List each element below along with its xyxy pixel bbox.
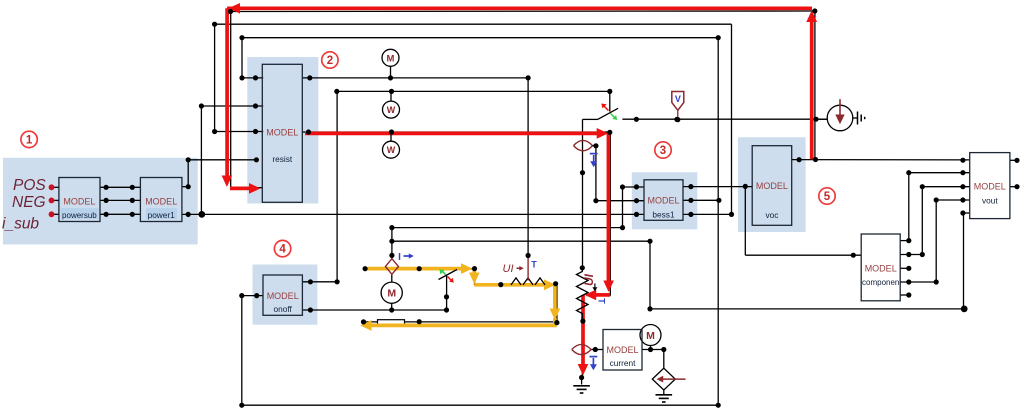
svg-text:POS: POS: [13, 177, 46, 194]
svg-text:MODEL: MODEL: [266, 127, 298, 137]
svg-text:5: 5: [824, 191, 831, 203]
svg-text:vout: vout: [982, 196, 998, 206]
svg-text:4: 4: [279, 244, 286, 256]
wire bess1 right pin1 to voc: [683, 186, 752, 188]
callout number 1: [21, 131, 37, 147]
wire resist pin1 row right to node T: [302, 77, 528, 79]
wire current sense row y=268.7: [365, 268, 474, 270]
wire vertical x=814.9 (under red highlight): [814, 11, 816, 160]
wire row y=308.9: [650, 308, 964, 310]
callout number 5: [819, 188, 835, 204]
wire power1 row y=159.8: [188, 159, 256, 161]
controlled source D2 (diamond): [652, 368, 675, 390]
svg-text:M: M: [646, 330, 655, 342]
meter W2 stub: [390, 132, 392, 141]
wire diamond source to ground: [663, 390, 665, 394]
label UI vertical arrow: [594, 284, 596, 289]
switch S2 red arrow: [448, 277, 451, 280]
yellow vertical x=554.9: [553, 285, 557, 309]
yellow arrow right: [461, 263, 473, 274]
wire bess1 right pin3 row: [683, 213, 732, 215]
meter M5: [640, 325, 661, 346]
voltage source VS1 (circle): [827, 105, 853, 131]
wire bess1 pin2 row left: [596, 200, 644, 202]
svg-text:componen: componen: [862, 278, 899, 287]
resistor R2 (horizontal): [511, 278, 545, 285]
svg-text:NEG: NEG: [12, 194, 46, 211]
yellow highlight row y=268.6: [368, 267, 463, 271]
svg-text:T: T: [597, 298, 607, 304]
wire row y=227.6: [392, 227, 623, 229]
yellow corner to return row: [371, 318, 555, 325]
switch S2 green arrow: [442, 271, 446, 275]
node bus junction (large): [198, 211, 205, 218]
shaded region 2 (resist group): [247, 57, 318, 204]
block U9 MODEL current: [603, 330, 642, 371]
wire riser x=391.9 to ammeter: [391, 228, 393, 259]
wire vertical x=731.5: [731, 24, 733, 214]
current sensor eye E1: [574, 140, 593, 150]
shaded region 4 (onoff group): [253, 265, 318, 325]
meter M1 stub: [390, 66, 392, 78]
red highlight left vertical: [225, 8, 229, 176]
wire vertical x=595.9 from sensor: [595, 146, 597, 201]
wire vertical x=188.2: [187, 160, 189, 187]
svg-text:UI: UI: [503, 263, 514, 275]
callout number 3: [655, 142, 671, 158]
wire onoff left pin: [242, 295, 263, 297]
thermal probe wire T: [527, 256, 529, 281]
svg-text:M: M: [387, 53, 395, 64]
svg-text:voc: voc: [765, 210, 778, 220]
svg-text:V: V: [675, 94, 681, 104]
switch S1: [609, 91, 611, 111]
wire top bus y=11.5: [230, 10, 815, 13]
wire bottom rail y=405.2: [242, 404, 718, 406]
wire row y=186.7 componen to vout: [922, 186, 969, 188]
block U5 MODEL bess1: [644, 180, 683, 221]
wire resist pin1 row left: [242, 77, 263, 79]
shaded region 5 (voc group): [738, 137, 806, 232]
yellow resistor row: [474, 283, 544, 287]
wire vertical x=528.1 to thermal probe: [527, 78, 529, 256]
wire resist pin3 row: [215, 131, 264, 133]
wire row y=172.7 componen to vout: [909, 172, 970, 174]
svg-text:bess1: bess1: [652, 210, 675, 220]
svg-text:1: 1: [26, 134, 33, 146]
wire componen pin1 stub: [900, 240, 909, 242]
svg-text:MODEL: MODEL: [974, 182, 1006, 192]
wire vertical x=936.2: [935, 200, 937, 282]
wire resist output row y=132 (under red highlight): [302, 131, 610, 133]
wire row y=214.4 power1 to bess1: [182, 213, 644, 215]
yellow vertical x=474.3: [472, 269, 476, 273]
red highlight battery vertical: [607, 133, 611, 281]
wire vertical to diamond source: [663, 350, 665, 369]
red highlight top bus: [227, 6, 812, 10]
wire voc right pin1 row to vout: [792, 159, 970, 161]
wire row y=255.2 to componen: [745, 254, 861, 256]
svg-text:MODEL: MODEL: [865, 263, 897, 273]
svg-text:MODEL: MODEL: [756, 181, 788, 191]
svg-text:T: T: [531, 260, 537, 270]
wire meter row y=91.4: [337, 90, 610, 92]
svg-text:2: 2: [327, 55, 333, 67]
red highlight arrow right into resist pin5: [230, 187, 250, 191]
red highlight arrow left: [228, 3, 240, 14]
yellow arrow down: [469, 273, 480, 285]
wire bus y=37.7: [242, 37, 718, 39]
svg-text:M: M: [387, 288, 396, 300]
wire row y=241.2: [392, 240, 650, 242]
svg-text:MODEL: MODEL: [145, 197, 177, 207]
switch S1 red arrow: [603, 106, 608, 111]
wire vertical x=610.3 (under red highlight): [609, 132, 611, 296]
switch S1 green arrow: [611, 114, 615, 118]
callout number 2: [322, 52, 338, 68]
wire switch2 vertical x=446.5: [446, 276, 448, 311]
svg-text:onoff: onoff: [274, 304, 293, 314]
block U2 MODEL power1: [140, 178, 182, 222]
wire meter M4 stub: [391, 303, 393, 310]
wire componen pin2 row: [900, 254, 922, 256]
wire bus y=24.2: [215, 23, 732, 25]
reference symbol at VS1: [853, 117, 858, 119]
wire onoff pin1 row: [302, 281, 337, 283]
wire battery branch below resistor: [581, 321, 583, 377]
svg-text:MODEL: MODEL: [267, 291, 299, 301]
wire vertical x=963.5 vout to row: [963, 213, 965, 309]
svg-text:power1: power1: [148, 210, 176, 220]
source D2 arrow: [660, 378, 686, 380]
wire vertical x=745.3 voc to componen: [744, 186, 746, 255]
red highlight right vertical: [810, 21, 814, 160]
wire vout right pin1 stub: [1010, 159, 1017, 161]
yellow arrow right after resistor: [544, 279, 556, 290]
wire ammeter to meter M4: [391, 274, 393, 282]
red highlight arrow up: [806, 10, 817, 22]
wire battery to ground: [581, 378, 583, 385]
wire bess1 right pin2 row: [683, 199, 719, 201]
source VS1 arrow: [839, 99, 841, 119]
wire current block left stub: [591, 349, 603, 351]
shaded region 1 (power group): [3, 158, 198, 245]
wire switch1 output row y=119.4: [622, 118, 827, 120]
ground G2: [656, 394, 673, 396]
meter M1: [382, 49, 399, 66]
wire meter M5 stub: [650, 346, 652, 350]
wire resist pin2 row: [201, 105, 263, 107]
fuse box on return row: [378, 320, 405, 325]
wire vertical x=622.5 to bess1 pin1: [622, 187, 624, 228]
ammeter sensor A1 (diamond): [385, 259, 398, 275]
wire V-source input: [816, 118, 827, 120]
sensor E1 output: [593, 145, 596, 147]
block U7 MODEL componen: [861, 234, 900, 301]
block U1 MODEL powersub: [59, 178, 100, 222]
svg-text:MODEL: MODEL: [606, 345, 638, 355]
wire vout right pin2 stub: [1010, 186, 1017, 188]
wire componen pin5 stub: [900, 294, 909, 296]
svg-text:MODEL: MODEL: [63, 197, 95, 207]
callout number 4: [274, 240, 290, 256]
svg-text:powersub: powersub: [62, 211, 97, 220]
svg-text:W: W: [387, 145, 396, 155]
meter M4: [381, 282, 402, 303]
block U6 MODEL voc: [752, 146, 792, 226]
wire onoff pin2 row: [302, 309, 446, 311]
red highlight arrow down to ground: [578, 364, 589, 376]
wire vertical x=650: [649, 241, 651, 309]
wire into resistor mid y=295.6: [587, 295, 611, 297]
svg-text:I: I: [398, 252, 401, 263]
wire row y=200 componen to vout: [936, 199, 970, 201]
wire vertical x=214.6: [214, 24, 216, 131]
wire vertical x=242: [241, 38, 243, 78]
battery internal resistor R1 (vertical zigzag): [577, 268, 589, 321]
svg-text:UI: UI: [582, 273, 596, 286]
wire vertical x=556.9: [556, 285, 558, 322]
meter W1 stub: [390, 91, 392, 101]
wire powersub-power1 row i_sub: [52, 213, 59, 215]
voltage probe V1: [672, 92, 684, 111]
wire vertical x=201.4: [200, 106, 202, 214]
blue discharge arrow 2: [590, 356, 598, 358]
label UI horizontal arrow: [517, 267, 521, 269]
node row junction (large): [961, 306, 968, 313]
svg-text:resist: resist: [272, 154, 293, 164]
meter W1: [383, 101, 400, 118]
svg-text:current: current: [610, 358, 637, 368]
svg-text:i_sub: i_sub: [2, 216, 39, 233]
meter W2: [383, 141, 400, 158]
yellow arrow down mid: [550, 309, 561, 321]
switch S2: [439, 270, 458, 280]
block U8 MODEL vout: [970, 153, 1010, 219]
svg-text:W: W: [387, 105, 396, 115]
wire vertical x=718.2: [717, 38, 719, 406]
wire vertical x=908.8: [908, 173, 910, 241]
wire componen pin3 stub: [900, 267, 909, 269]
wire bess1 pin1 row left: [623, 186, 645, 188]
wire vertical x=241.8 to bottom rail: [241, 296, 243, 406]
red highlight resist output row: [305, 132, 598, 136]
wire vertical x=337.1 to onoff: [336, 91, 338, 281]
red highlight arrow down at resistor: [603, 281, 614, 293]
shaded region 3 (bess1 group): [632, 172, 698, 229]
wire vertical x=582.5 battery branch: [582, 119, 584, 267]
wire powersub-power1 row NEG: [52, 199, 59, 201]
svg-text:MODEL: MODEL: [647, 196, 679, 206]
red highlight lower vertical: [581, 295, 585, 365]
wire vertical x=922.3: [921, 187, 923, 255]
wire vout pin5 stub: [963, 212, 970, 214]
block U3 MODEL resist: [262, 64, 302, 202]
wire resistor row y=284.9: [475, 284, 557, 286]
wire componen pin4 row: [900, 281, 936, 283]
wire switch1 input: [583, 118, 598, 120]
block U4 MODEL onoff: [263, 275, 302, 315]
svg-text:3: 3: [660, 145, 666, 157]
wire current block right row: [642, 349, 664, 351]
wire powersub-power1 row POS: [52, 186, 59, 188]
yellow arrow left end: [360, 320, 371, 331]
red highlight arrow right at switch node: [597, 128, 609, 139]
ground G1: [573, 385, 590, 387]
red highlight turn into resistor: [596, 293, 610, 297]
red highlight arrow down into resist: [222, 176, 233, 188]
wire return row y=322.2: [362, 321, 557, 323]
wire vertical x=230.7 (under red highlight): [230, 12, 232, 188]
blue discharge arrow 1: [590, 153, 598, 155]
wire into resist pin5: [231, 187, 263, 189]
wire vertical x=474.5: [474, 269, 476, 285]
current sensor eye E2: [572, 344, 591, 354]
